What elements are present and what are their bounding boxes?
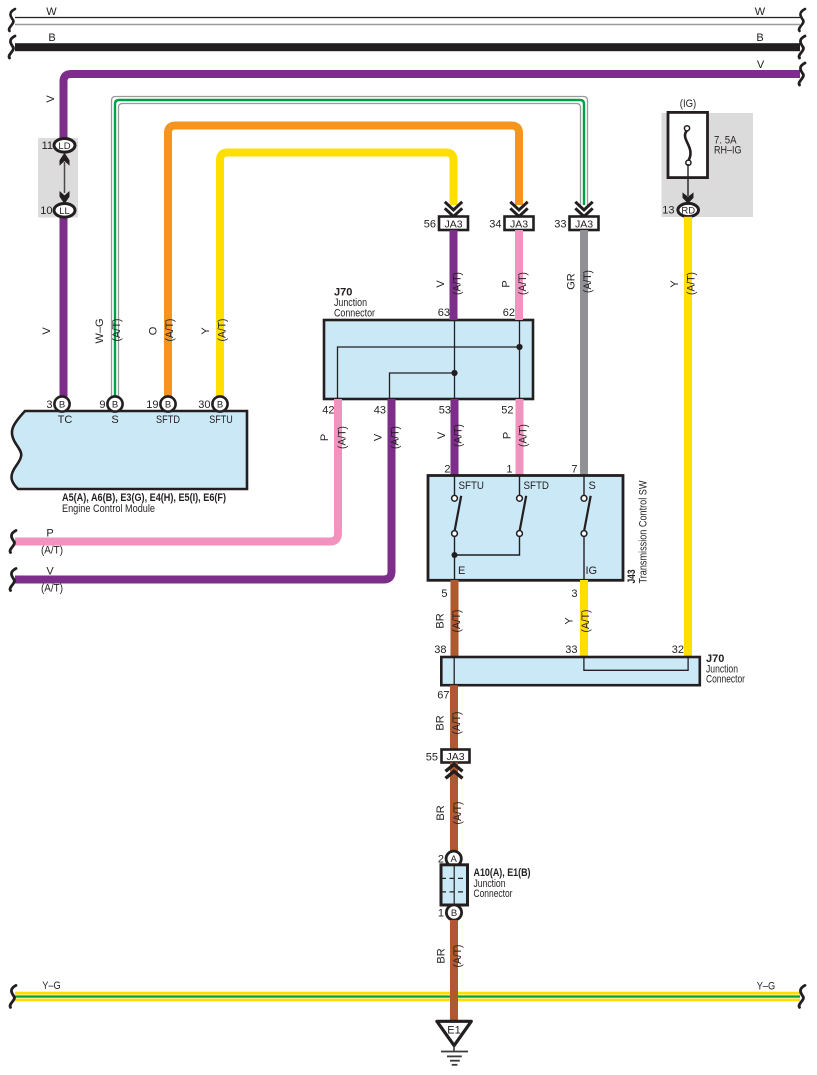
svg-text:E: E	[458, 565, 465, 577]
svg-text:V: V	[41, 327, 53, 335]
svg-text:Connector: Connector	[474, 888, 513, 900]
svg-text:B: B	[217, 400, 223, 411]
ground stem	[453, 1046, 455, 1052]
wire S contact to IG pin	[583, 536, 585, 580]
svg-text:LD: LD	[58, 141, 70, 152]
svg-text:43: 43	[374, 405, 386, 417]
svg-text:IG: IG	[586, 565, 598, 577]
wire P pink J70 pin 42 to left edge	[15, 399, 338, 542]
connector block LD/LL background	[38, 138, 78, 218]
svg-text:(A/T): (A/T)	[517, 272, 529, 295]
fuse element curve	[685, 131, 691, 161]
arrow down LL	[60, 191, 70, 204]
wire Y-G green stripe	[15, 995, 800, 997]
switch S stub	[583, 476, 585, 496]
svg-text:(A/T): (A/T)	[41, 583, 63, 595]
svg-text:63: 63	[438, 307, 450, 319]
svg-text:V: V	[373, 433, 385, 441]
svg-text:(A/T): (A/T)	[451, 610, 463, 633]
svg-text:3: 3	[46, 399, 52, 411]
svg-text:55: 55	[426, 752, 438, 764]
switch SFTD bottom contact	[517, 531, 523, 537]
wire BR brown junction B to ground	[450, 920, 458, 1023]
svg-text:B: B	[48, 32, 55, 44]
wire Y yellow J43 pin 3 to J70 lower	[580, 580, 588, 658]
svg-text:Y–G: Y–G	[757, 981, 776, 993]
svg-text:E1: E1	[447, 1025, 460, 1037]
switch S blade	[584, 496, 591, 531]
J70 upper title	[334, 287, 375, 320]
svg-text:(A/T): (A/T)	[452, 272, 464, 295]
svg-text:33: 33	[565, 644, 577, 656]
svg-text:BR: BR	[435, 715, 447, 730]
connector JA3 33	[570, 217, 599, 231]
pin 30 connector B	[212, 396, 227, 411]
wire W-G green stripe	[115, 100, 584, 397]
wire V purple JA3-56 to J70	[450, 230, 458, 320]
svg-text:2: 2	[444, 464, 450, 476]
pin 19 connector B	[160, 396, 175, 411]
svg-text:9: 9	[99, 399, 105, 411]
svg-text:JA3: JA3	[510, 218, 528, 230]
wire BR brown J70-67 to JA3-55	[450, 685, 458, 750]
svg-text:42: 42	[322, 405, 334, 417]
svg-text:(A/T): (A/T)	[337, 426, 349, 449]
switch SFTU stub	[454, 476, 456, 496]
connector B circle pin 1	[446, 905, 461, 920]
svg-text:(A/T): (A/T)	[390, 426, 402, 449]
wire E junction to pin 5	[454, 555, 456, 580]
wire V bus and vertical drop to ECM pin 3	[64, 74, 801, 398]
svg-text:JA3: JA3	[575, 218, 593, 230]
svg-text:(A/T): (A/T)	[452, 802, 464, 825]
svg-text:BR: BR	[436, 948, 448, 963]
svg-text:W: W	[46, 6, 57, 18]
ground bar 1	[441, 1051, 468, 1053]
svg-text:33: 33	[554, 219, 566, 231]
switch SFTD blade	[520, 496, 527, 531]
svg-text:Y: Y	[669, 280, 681, 288]
connector LL	[54, 204, 75, 218]
svg-text:W–G: W–G	[94, 318, 106, 343]
connector 13 RD	[678, 203, 699, 216]
svg-text:1: 1	[438, 908, 444, 920]
svg-text:Connector: Connector	[334, 308, 375, 320]
svg-text:RD: RD	[681, 206, 695, 217]
svg-text:11: 11	[42, 140, 53, 152]
svg-text:67: 67	[437, 690, 449, 702]
svg-text:BR: BR	[435, 805, 447, 820]
svg-text:19: 19	[146, 399, 158, 411]
svg-text:J43: J43	[626, 570, 638, 584]
junction dot on 63 wire	[451, 370, 457, 376]
svg-text:52: 52	[501, 405, 513, 417]
svg-text:LL: LL	[59, 206, 70, 217]
svg-text:1: 1	[506, 464, 512, 476]
arrow up LD	[60, 153, 70, 166]
svg-text:V: V	[46, 566, 54, 578]
wire W bus top line	[15, 17, 800, 19]
svg-text:GR: GR	[566, 273, 578, 290]
ground bar 2	[447, 1055, 462, 1057]
connector JA3 56	[439, 217, 468, 231]
svg-text:(A/T): (A/T)	[164, 319, 176, 342]
wire Y yellow ECM30 to JA3-56	[220, 153, 454, 398]
svg-text:BR: BR	[435, 613, 447, 628]
svg-text:3: 3	[571, 588, 577, 600]
wire BR brown JA3-55 to junction A	[450, 763, 458, 853]
ground bar 4	[452, 1064, 458, 1066]
wire P pink J70 pin 52 to J43 pin 1	[516, 399, 524, 476]
wire W bus bottom line	[15, 24, 800, 26]
svg-text:(A/T): (A/T)	[217, 319, 229, 342]
wire W-G outer left line	[112, 97, 588, 398]
svg-text:10: 10	[40, 205, 52, 217]
fuse terminal bottom	[686, 160, 691, 165]
break symbol W left	[9, 9, 15, 31]
ground E1 triangle	[437, 1021, 471, 1045]
svg-text:P: P	[501, 280, 513, 287]
connector arrow JA3-33	[575, 202, 592, 217]
svg-text:(A/T): (A/T)	[580, 610, 592, 633]
svg-text:(A/T): (A/T)	[41, 545, 63, 557]
junction connector internal dash row 2	[441, 891, 468, 893]
svg-text:(A/T): (A/T)	[452, 945, 464, 968]
svg-text:(IG): (IG)	[680, 98, 697, 110]
J70 internal wire 63-53	[454, 320, 456, 399]
svg-text:P: P	[502, 432, 514, 439]
transmission control switch J43 box	[428, 476, 623, 581]
svg-text:38: 38	[434, 644, 446, 656]
break symbol Y-G right	[799, 985, 805, 1007]
wire Y-G yellow band	[15, 992, 800, 1002]
fuse 7.5A RH-IG body	[668, 112, 708, 177]
break symbol B right	[799, 36, 805, 58]
svg-text:56: 56	[424, 219, 436, 231]
svg-text:B: B	[165, 400, 171, 411]
pin 3 connector B	[54, 396, 69, 411]
fuse block background	[662, 113, 754, 217]
break symbol B left	[9, 36, 15, 58]
connector A circle pin 2	[446, 851, 461, 866]
wire link LD-LL	[64, 162, 66, 193]
svg-text:7: 7	[571, 464, 577, 476]
svg-text:Engine Control Module: Engine Control Module	[62, 503, 155, 515]
wire Y yellow fuse to J70 lower	[684, 217, 692, 658]
svg-text:(A/T): (A/T)	[686, 272, 698, 295]
svg-text:B: B	[59, 400, 65, 411]
switch S bottom contact	[581, 531, 587, 537]
svg-text:TC: TC	[58, 414, 73, 426]
junction connector J70 upper box	[324, 320, 533, 399]
svg-text:S: S	[589, 480, 596, 492]
svg-text:V: V	[757, 59, 765, 71]
junction dot on 62 wire	[516, 344, 522, 350]
svg-text:W: W	[755, 6, 766, 18]
pin 9 connector B	[107, 396, 122, 411]
svg-text:B: B	[112, 400, 118, 411]
J70 lower internal wire 38-67	[453, 657, 455, 685]
break symbol P left	[10, 531, 16, 553]
wire O orange ECM19 to JA3-34	[168, 126, 519, 398]
svg-text:13: 13	[662, 205, 674, 217]
ECM Engine Control Module box	[12, 411, 247, 489]
switch SFTU top contact	[452, 495, 458, 501]
switch SFTD top contact	[517, 495, 523, 501]
svg-text:O: O	[148, 326, 160, 335]
break symbol V right	[799, 63, 805, 85]
svg-text:SFTD: SFTD	[156, 414, 180, 426]
connector JA3 55	[442, 750, 470, 764]
svg-text:(A/T): (A/T)	[453, 424, 465, 447]
break symbol W right	[799, 9, 805, 31]
wire SFTU contact to E junction	[454, 536, 456, 555]
wire B bus	[15, 43, 800, 51]
fuse terminal top	[684, 126, 689, 131]
svg-text:Transmission Control SW: Transmission Control SW	[638, 480, 650, 584]
svg-text:JA3: JA3	[444, 218, 462, 230]
svg-text:(A/T): (A/T)	[451, 712, 463, 735]
wire W-G inner line	[119, 104, 581, 398]
svg-text:62: 62	[503, 307, 515, 319]
svg-text:(A/T): (A/T)	[111, 319, 123, 342]
junction connector internal vertical	[453, 865, 455, 905]
svg-text:Y: Y	[564, 617, 576, 625]
junction dot E	[452, 552, 458, 558]
svg-text:V: V	[45, 95, 57, 103]
switch S top contact	[581, 495, 587, 501]
connector arrow JA3-56	[445, 202, 462, 217]
connector arrow JA3-55 up	[446, 764, 463, 778]
J70 internal wire 62-52	[519, 320, 521, 399]
svg-text:P: P	[46, 528, 53, 540]
wire Y-G white separators	[15, 995, 800, 999]
svg-text:B: B	[756, 32, 763, 44]
svg-text:RH–IG: RH–IG	[714, 145, 742, 157]
junction connector A10/E1 block	[441, 865, 468, 905]
wire E bus inside J43	[455, 536, 520, 555]
svg-text:30: 30	[198, 399, 210, 411]
break symbol Y-G left	[10, 985, 16, 1007]
wire GR gray JA3-33 to J43 pin 7	[580, 230, 588, 476]
svg-text:V: V	[436, 431, 448, 439]
switch SFTU blade	[455, 496, 462, 531]
junction connector J70 lower box	[441, 657, 700, 685]
connector LD	[54, 139, 75, 153]
svg-text:(A/T): (A/T)	[582, 270, 594, 293]
svg-text:S: S	[111, 414, 118, 426]
arrow down into connector 13	[683, 192, 694, 203]
switch SFTD stub	[519, 476, 521, 496]
ground bar 3	[450, 1060, 460, 1062]
svg-text:34: 34	[489, 219, 501, 231]
svg-text:32: 32	[672, 644, 684, 656]
wire V purple J70 pin 43 to left edge	[15, 399, 392, 580]
wire V purple J70 pin 53 to J43 pin 2	[451, 399, 459, 476]
J70 internal bus to pin 43	[390, 373, 455, 399]
svg-text:SFTU: SFTU	[209, 414, 233, 426]
svg-text:53: 53	[439, 405, 451, 417]
switch SFTU bottom contact	[452, 531, 458, 537]
J70 internal bus to pin 42	[338, 347, 520, 399]
svg-text:SFTU: SFTU	[459, 480, 485, 492]
svg-text:Connector: Connector	[706, 674, 745, 686]
wire fuse to connector 13	[687, 164, 689, 196]
junction connector internal dash row 1	[441, 877, 468, 879]
J70 lower internal bus 33-32	[584, 657, 688, 670]
J70 lower title	[706, 653, 745, 686]
wire BR brown J43 pin 5 to J70 lower	[451, 580, 459, 658]
svg-text:Y–G: Y–G	[42, 980, 61, 992]
wire P pink JA3-34 to J70	[515, 230, 523, 320]
connector arrow JA3-34	[510, 202, 527, 217]
break symbol V left	[10, 569, 16, 591]
junction connector title	[474, 867, 531, 900]
svg-text:P: P	[319, 434, 331, 441]
svg-text:SFTD: SFTD	[524, 480, 550, 492]
svg-text:5: 5	[441, 588, 447, 600]
svg-text:B: B	[451, 908, 457, 919]
connector JA3 34	[505, 217, 534, 231]
svg-text:Y: Y	[200, 327, 212, 335]
svg-text:V: V	[435, 280, 447, 288]
svg-text:JA3: JA3	[446, 751, 464, 763]
svg-text:(A/T): (A/T)	[518, 424, 530, 447]
